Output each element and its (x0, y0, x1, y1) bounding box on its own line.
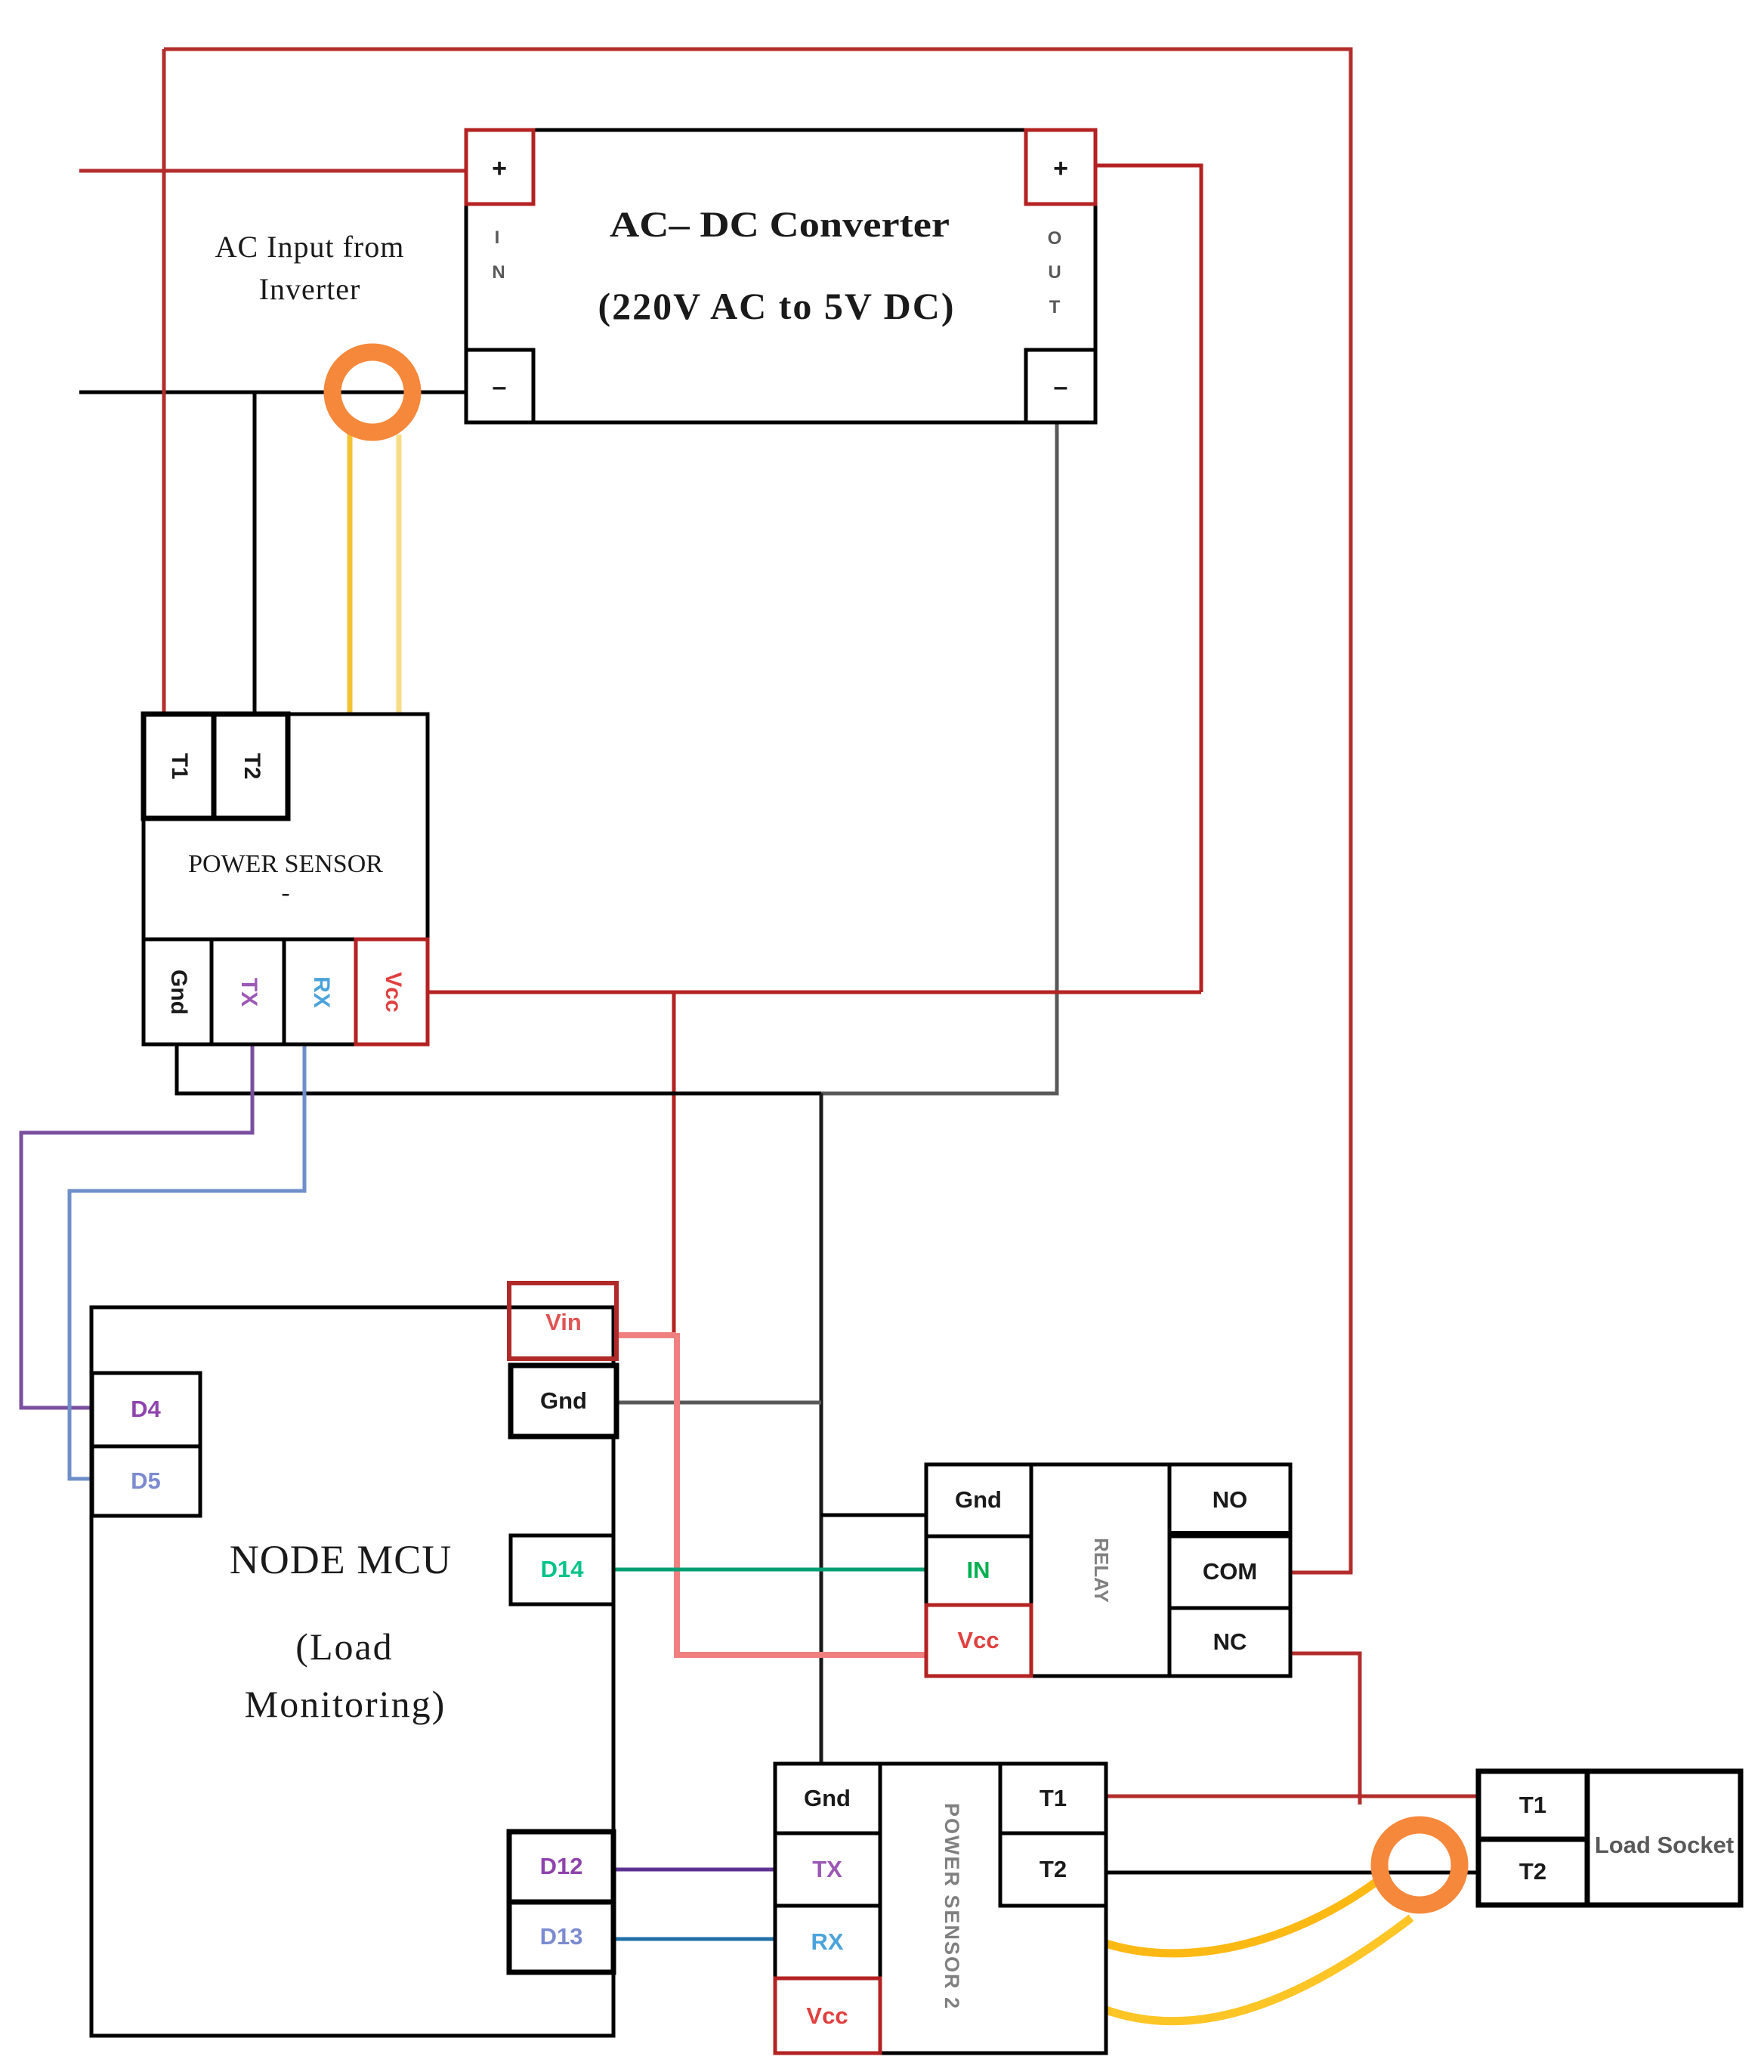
svg-text:Inverter: Inverter (259, 272, 361, 306)
pin Vcc relay (926, 1605, 1031, 1676)
pin OUT + (1026, 130, 1095, 204)
pin IN + (466, 130, 533, 204)
wire D14 to relay IN green (613, 1568, 926, 1572)
wire AC hot vertical to sensor T1 (162, 49, 166, 714)
svg-text:T2: T2 (239, 753, 264, 779)
svg-text:D14: D14 (541, 1556, 585, 1582)
wire Vcc branch down (672, 992, 676, 1333)
svg-text:T2: T2 (1519, 1858, 1546, 1885)
svg-text:-: - (281, 879, 289, 907)
svg-text:(Load: (Load (295, 1625, 393, 1668)
svg-text:RX: RX (309, 976, 334, 1008)
svg-text:Gnd: Gnd (540, 1387, 587, 1414)
wire sensor1 RX blue (70, 1044, 304, 1479)
wire relay NC crimson (1290, 1653, 1360, 1804)
relay K1 (926, 1464, 1290, 1676)
pin NC (1169, 1608, 1290, 1676)
wire sensor1 TX purple (21, 1044, 252, 1408)
wire AC hot from inverter (79, 169, 466, 173)
svg-text:NODE MCU: NODE MCU (230, 1537, 453, 1582)
svg-text:O: O (1048, 228, 1062, 249)
pin T1 sensor1 (144, 714, 214, 818)
wire CT1 yellow lead right (397, 435, 402, 714)
wire nodemcu Gnd gray (616, 1401, 821, 1405)
svg-text:T1: T1 (1519, 1792, 1546, 1818)
pin D5 (92, 1446, 200, 1516)
pin T2 load (1478, 1839, 1587, 1905)
svg-text:TX: TX (812, 1856, 842, 1882)
pin IN - (466, 350, 533, 422)
pin D14 (511, 1535, 613, 1604)
svg-text:AC Input from: AC Input from (215, 230, 405, 264)
wire AC hot top run to relay COM (164, 49, 1351, 1573)
wire neutral branch to sensor T2 (253, 392, 257, 714)
CT coil 1 (332, 352, 412, 432)
wire DC out + from converter (1095, 165, 1201, 992)
svg-text:Vin: Vin (545, 1309, 582, 1335)
pin Gnd relay (926, 1464, 1031, 1536)
pin COM (1169, 1536, 1290, 1608)
svg-text:+: + (492, 154, 507, 183)
pin T2 sensor2 (1000, 1833, 1106, 1906)
pin D13 (509, 1902, 613, 1972)
svg-text:RX: RX (811, 1928, 843, 1955)
pin Gnd nodemcu (511, 1365, 616, 1436)
pin TX sensor1 (212, 939, 284, 1044)
pin Vcc sensor2 (775, 1978, 880, 2053)
wire AC neutral from inverter (79, 391, 466, 394)
svg-text:+: + (1053, 154, 1068, 183)
wire D13 to sensor2 RX (613, 1937, 775, 1941)
svg-text:NO: NO (1213, 1486, 1248, 1513)
svg-text:T2: T2 (1040, 1856, 1067, 1882)
pin OUT - (1026, 350, 1095, 422)
NODE MCU U2 (91, 1307, 613, 2036)
wire relay Gnd tap (821, 1514, 926, 1517)
wire sensor1 Gnd (177, 1044, 821, 1093)
svg-text:Vcc: Vcc (806, 2002, 848, 2029)
svg-text:U: U (1048, 262, 1061, 283)
svg-text:Gnd: Gnd (166, 970, 191, 1015)
wire CT2 yellow upper (1106, 1882, 1376, 1953)
svg-text:Vcc: Vcc (957, 1627, 999, 1653)
svg-text:D4: D4 (131, 1396, 161, 1422)
pin Vin (509, 1283, 616, 1359)
pin D4 (92, 1373, 200, 1446)
svg-text:D13: D13 (540, 1923, 583, 1950)
pin TX sensor2 (775, 1833, 880, 1906)
svg-text:Vcc: Vcc (381, 972, 406, 1012)
pin IN relay (926, 1536, 1031, 1605)
pin T1 load (1478, 1771, 1587, 1839)
pin T1 sensor2 (1000, 1764, 1106, 1833)
AC-DC converter U1 (466, 130, 1095, 422)
pin NO (1169, 1464, 1290, 1536)
svg-text:T1: T1 (1040, 1785, 1067, 1811)
wire CT1 yellow lead left (348, 431, 353, 714)
svg-text:I: I (495, 227, 500, 248)
wire Vcc sensor1 (428, 991, 1201, 994)
svg-text:POWER SENSOR 2: POWER SENSOR 2 (941, 1803, 963, 2010)
pin RX sensor1 (284, 939, 356, 1044)
power sensor 2 (775, 1764, 1106, 2053)
svg-text:Gnd: Gnd (804, 1785, 851, 1811)
svg-text:Gnd: Gnd (955, 1486, 1002, 1513)
power sensor 1 (144, 714, 428, 1044)
pin RX sensor2 (775, 1906, 880, 1978)
pin Gnd sensor1 (144, 939, 212, 1044)
svg-text:IN: IN (967, 1557, 990, 1583)
svg-text:–: – (1054, 373, 1068, 401)
pin T2 sensor1 (214, 714, 288, 818)
wire sensor2 T1 to load T1 (1106, 1795, 1478, 1798)
wire CT2 yellow lower (1106, 1918, 1411, 2021)
wire Vin salmon (613, 1332, 676, 1338)
svg-text:POWER SENSOR: POWER SENSOR (188, 850, 383, 878)
svg-text:AC– DC Converter: AC– DC Converter (610, 205, 950, 245)
pin Vcc sensor1 (356, 939, 428, 1044)
svg-text:N: N (492, 262, 505, 283)
svg-text:COM: COM (1203, 1558, 1257, 1585)
svg-text:D12: D12 (540, 1853, 583, 1879)
wire salmon down to relay Vcc (677, 1333, 926, 1655)
wire sensor2 T2 to load T2 (1106, 1871, 1478, 1875)
svg-text:T1: T1 (167, 753, 192, 779)
svg-text:D5: D5 (131, 1467, 161, 1494)
svg-text:RELAY: RELAY (1090, 1538, 1113, 1603)
wire ground bus down (820, 1093, 823, 1764)
svg-text:T: T (1049, 297, 1061, 317)
pin D12 (509, 1832, 613, 1902)
load socket (1478, 1771, 1741, 1905)
CT coil 2 (1379, 1825, 1460, 1905)
svg-text:–: – (493, 373, 507, 401)
svg-text:Load Socket: Load Socket (1595, 1832, 1734, 1858)
wire DC out - gray (821, 422, 1057, 1093)
svg-text:(220V AC to 5V DC): (220V AC to 5V DC) (598, 285, 955, 327)
svg-text:Monitoring): Monitoring) (245, 1683, 446, 1725)
pin Gnd sensor2 (775, 1764, 880, 1833)
svg-text:TX: TX (236, 978, 261, 1007)
wire D12 to sensor2 TX (613, 1868, 775, 1872)
svg-text:NC: NC (1213, 1628, 1247, 1655)
